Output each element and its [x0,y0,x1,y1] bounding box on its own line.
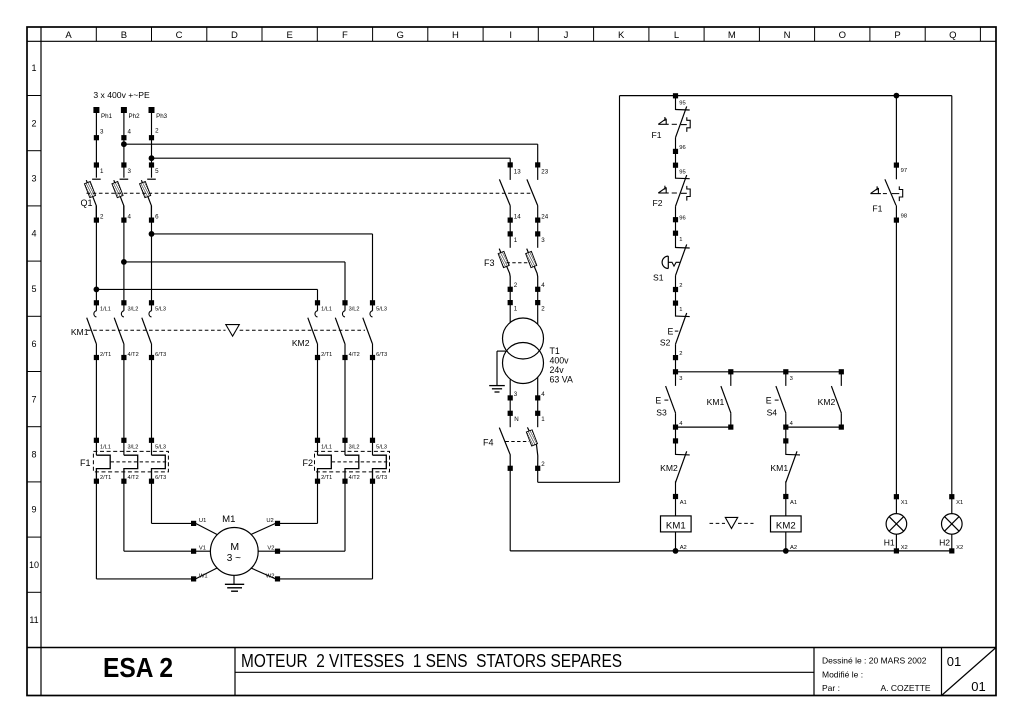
wire 96 to F2 95 [675,151,677,165]
title block [27,648,996,696]
svg-text:5/L3: 5/L3 [155,444,166,450]
svg-text:95: 95 [679,100,685,106]
svg-text:S3: S3 [656,408,667,418]
interlock contact KM1 NC [770,427,800,506]
svg-text:2: 2 [541,305,545,312]
svg-text:3: 3 [514,391,518,398]
svg-text:1: 1 [514,305,518,312]
svg-text:4: 4 [128,129,132,136]
svg-text:KM2: KM2 [818,397,836,407]
overload relay F2 [302,438,389,484]
svg-text:63 VA: 63 VA [550,374,573,384]
svg-text:10: 10 [29,560,39,570]
svg-text:2: 2 [514,282,518,289]
svg-text:8: 8 [31,450,36,460]
transformer T1 [503,318,573,384]
svg-text:6/T3: 6/T3 [155,475,166,481]
Q1 auxiliary contact 23-24 [527,162,549,244]
wire S4 parallel [786,426,842,428]
column letter header [65,27,980,41]
contactor KM2 main contacts [292,300,387,360]
svg-text:2: 2 [31,118,36,128]
wire KM1 to F1 [95,358,97,441]
wire Ph1 down to KM1 [95,220,97,303]
wire Ph3 down to KM1 [151,220,153,303]
svg-text:400v: 400v [550,355,570,365]
svg-text:M1: M1 [222,514,235,525]
svg-text:F1: F1 [80,458,91,468]
svg-text:3: 3 [100,129,104,136]
svg-text:A2: A2 [790,545,797,551]
aux contact KM2 13-14 [818,372,844,430]
overload relay F1 [80,438,168,484]
svg-text:A: A [65,30,72,41]
svg-text:ESA 2: ESA 2 [103,652,173,683]
svg-text:3: 3 [31,174,36,184]
wire F3 to T1 [509,303,511,323]
wire KM2 to F2 [317,358,319,441]
svg-text:G: G [397,30,404,41]
phase Ph2 [121,107,140,175]
svg-text:1: 1 [679,237,682,243]
svg-text:4/T2: 4/T2 [128,352,139,358]
svg-text:2/T1: 2/T1 [100,352,111,358]
start button S4 [766,372,794,430]
svg-text:Q: Q [949,30,956,41]
svg-text:01: 01 [971,679,985,694]
coil KM2 [771,497,802,554]
svg-text:Q1: Q1 [80,198,92,208]
aux contact KM1 13-14 [707,372,734,430]
svg-text:H1: H1 [884,537,895,547]
node tap Ph2 to control [121,141,127,147]
svg-text:N: N [514,416,518,423]
svg-text:6/T3: 6/T3 [155,352,166,358]
row number band [27,63,41,647]
svg-text:U2: U2 [266,518,273,524]
svg-text:P: P [894,30,900,41]
svg-text:A2: A2 [680,545,687,551]
svg-text:3: 3 [541,237,545,244]
svg-text:5/L3: 5/L3 [376,444,387,450]
svg-text:1: 1 [100,168,104,175]
title block info [822,656,931,693]
wire F2 2/T1 to U2 [317,481,319,523]
svg-text:2: 2 [155,128,159,135]
svg-text:24v: 24v [550,365,565,375]
coil mechanical interlock triangle [710,517,754,528]
svg-text:KM1: KM1 [707,397,725,407]
fuse switch F4 [483,413,545,471]
fuse switch F3 [484,234,545,313]
svg-text:MOTEUR 2 VITESSES 1 SENS ST: MOTEUR 2 VITESSES 1 SENS STATORS SEPARES [241,651,622,671]
motor M1 [191,514,280,582]
svg-text:F: F [342,30,348,41]
svg-text:D: D [231,30,238,41]
thermal contact F1 97-98 [871,96,908,223]
svg-text:2/T1: 2/T1 [321,352,332,358]
svg-text:Ph1: Ph1 [101,113,113,120]
svg-text:3/L2: 3/L2 [128,444,139,450]
Q1 mechanical linkage (dashed) [87,192,534,194]
svg-text:Modifié le :: Modifié le : [822,669,863,679]
svg-text:B: B [121,30,127,41]
node rail to H1 branch [894,93,900,99]
svg-text:1: 1 [514,237,518,244]
emergency stop S1 [653,231,690,293]
svg-text:X2: X2 [956,545,963,551]
node tap Ph3 to control [149,155,155,161]
svg-text:5/L3: 5/L3 [155,307,166,313]
svg-text:1/L1: 1/L1 [321,444,332,450]
svg-text:H2: H2 [939,537,950,547]
svg-text:S1: S1 [653,273,664,283]
transformer ground [489,351,505,392]
svg-text:A1: A1 [790,500,797,506]
svg-text:KM2: KM2 [292,338,310,348]
svg-text:3/L2: 3/L2 [128,307,139,313]
svg-text:23: 23 [541,168,548,175]
svg-text:4/T2: 4/T2 [128,475,139,481]
disconnector Q1 [80,165,159,223]
svg-text:U1: U1 [199,518,206,524]
svg-text:KM1: KM1 [770,463,788,473]
svg-text:KM2: KM2 [660,463,678,473]
svg-text:H: H [452,30,459,41]
wire F4 to bottom rail [509,468,511,551]
wire F2 4/T2 to V2 [344,481,346,551]
wire F2 6/T3 to W2 [372,481,374,579]
svg-text:1: 1 [31,63,36,73]
wire tap to KM2 5/L3 [152,233,373,235]
svg-text:24: 24 [541,213,548,220]
svg-text:3 x 400v +~PE: 3 x 400v +~PE [93,90,150,100]
Q1 auxiliary contact 13-14 [499,162,521,244]
svg-text:F1: F1 [651,130,661,140]
svg-text:F2: F2 [302,458,313,468]
svg-text:X1: X1 [901,500,908,506]
svg-text:98: 98 [901,214,907,220]
svg-text:T1: T1 [550,346,560,356]
svg-text:3: 3 [790,376,793,382]
svg-text:E: E [287,30,293,41]
svg-text:6/T3: 6/T3 [376,475,387,481]
thermal contact F1 95-96 [651,93,690,154]
svg-text:97: 97 [901,168,907,174]
svg-text:2: 2 [541,461,545,468]
contactor KM1 main contacts [71,300,166,360]
wire Ph2 tap to Q1 aux 23 [124,143,538,145]
svg-text:3: 3 [679,376,682,382]
svg-text:4/T2: 4/T2 [349,475,360,481]
motor ground [225,575,244,591]
svg-text:6: 6 [31,339,36,349]
svg-text:11: 11 [29,615,38,625]
svg-text:E: E [655,396,661,406]
svg-text:9: 9 [31,505,36,515]
svg-text:5/L3: 5/L3 [376,307,387,313]
svg-text:C: C [176,30,183,41]
svg-text:KM2: KM2 [776,520,796,531]
svg-text:F3: F3 [484,258,495,268]
svg-text:S2: S2 [660,338,671,348]
svg-text:X2: X2 [901,545,908,551]
phase Ph3 [149,107,168,175]
wire S3 parallel [676,426,731,428]
svg-text:2: 2 [679,283,682,289]
node 3 rail [673,358,844,382]
svg-text:KM1: KM1 [71,327,89,337]
svg-text:F4: F4 [483,438,494,448]
svg-text:6/T3: 6/T3 [376,352,387,358]
start button S3 [655,372,683,430]
svg-text:Par :: Par : [822,683,840,693]
wire F4 to control loop riser [537,468,539,482]
KM1-KM2 mechanical linkage with interlock triangle [87,325,365,337]
svg-text:1/L1: 1/L1 [321,307,332,313]
svg-text:4: 4 [31,229,36,239]
wire F1 6/T3 to U1 [151,481,153,523]
svg-text:A1: A1 [680,500,687,506]
lamp H1 [884,494,908,553]
svg-text:3: 3 [128,168,132,175]
svg-text:96: 96 [679,215,685,221]
svg-text:L: L [674,30,679,41]
svg-text:4: 4 [541,282,545,289]
node tap Ph3 to KM2 [149,231,155,237]
svg-text:X1: X1 [956,500,963,506]
svg-text:5: 5 [31,284,36,294]
svg-text:Dessiné le : 20 MARS 2002: Dessiné le : 20 MARS 2002 [822,656,927,666]
wire tap to KM2 3/L2 [124,261,345,263]
phase Ph1 [93,107,112,175]
wire F1 2/T1 to W1 [95,481,97,579]
svg-text:3/L2: 3/L2 [349,307,360,313]
svg-text:K: K [618,30,625,41]
wire F1 4/T2 to V1 [123,481,125,551]
wire T1 secondary [509,379,511,413]
svg-text:14: 14 [514,213,521,220]
control bottom rail [510,550,952,552]
wire Ph3 tap to Q1 aux 13 [152,157,511,159]
stop button S2 [660,301,690,361]
interlock contact KM2 NC [660,427,690,506]
svg-text:4: 4 [541,391,545,398]
svg-text:E: E [766,396,772,406]
svg-text:3 ~: 3 ~ [227,553,241,564]
svg-text:M: M [230,541,239,553]
svg-text:01: 01 [947,654,961,669]
svg-text:2: 2 [100,214,104,221]
thermal contact F2 95-96 [652,163,690,223]
svg-text:F2: F2 [652,198,662,208]
svg-text:I: I [509,30,512,41]
svg-text:5: 5 [155,168,159,175]
svg-text:13: 13 [514,168,521,175]
svg-text:Ph2: Ph2 [129,113,141,120]
coil KM1 [661,497,692,554]
wire F2 96 to S1 [675,220,677,234]
svg-text:Ph3: Ph3 [156,113,168,120]
svg-text:2/T1: 2/T1 [321,475,332,481]
svg-text:1/L1: 1/L1 [100,307,111,313]
svg-text:E: E [668,327,674,337]
svg-text:F1: F1 [872,204,882,214]
svg-text:J: J [564,30,569,41]
svg-text:N: N [784,30,791,41]
svg-text:4/T2: 4/T2 [349,352,360,358]
svg-text:7: 7 [31,394,36,404]
svg-text:3/L2: 3/L2 [349,444,360,450]
svg-text:1/L1: 1/L1 [100,444,111,450]
node tap Ph2 to KM2 [121,259,127,265]
svg-text:1: 1 [679,307,682,313]
svg-text:1: 1 [541,416,545,423]
node tap Ph1 to KM2 [94,287,100,293]
svg-text:4: 4 [128,214,132,221]
control top rail [620,95,952,97]
svg-text:95: 95 [679,170,685,176]
wire top rail to lamp H2 [951,96,953,497]
lamp H2 [939,494,963,553]
svg-text:96: 96 [679,145,685,151]
svg-text:2/T1: 2/T1 [100,475,111,481]
wire Ph2 down to KM1 [123,220,125,303]
svg-text:O: O [839,30,846,41]
svg-text:6: 6 [155,214,159,221]
svg-text:KM1: KM1 [666,520,686,531]
wire S1 to S2 [675,290,677,304]
svg-text:A. COZETTE: A. COZETTE [881,683,931,693]
wire F1 98 to lamp H1 [895,220,897,497]
svg-text:S4: S4 [767,408,778,418]
wire tap to KM2 1/L1 [96,288,317,290]
svg-text:M: M [728,30,736,41]
svg-text:2: 2 [679,351,682,357]
